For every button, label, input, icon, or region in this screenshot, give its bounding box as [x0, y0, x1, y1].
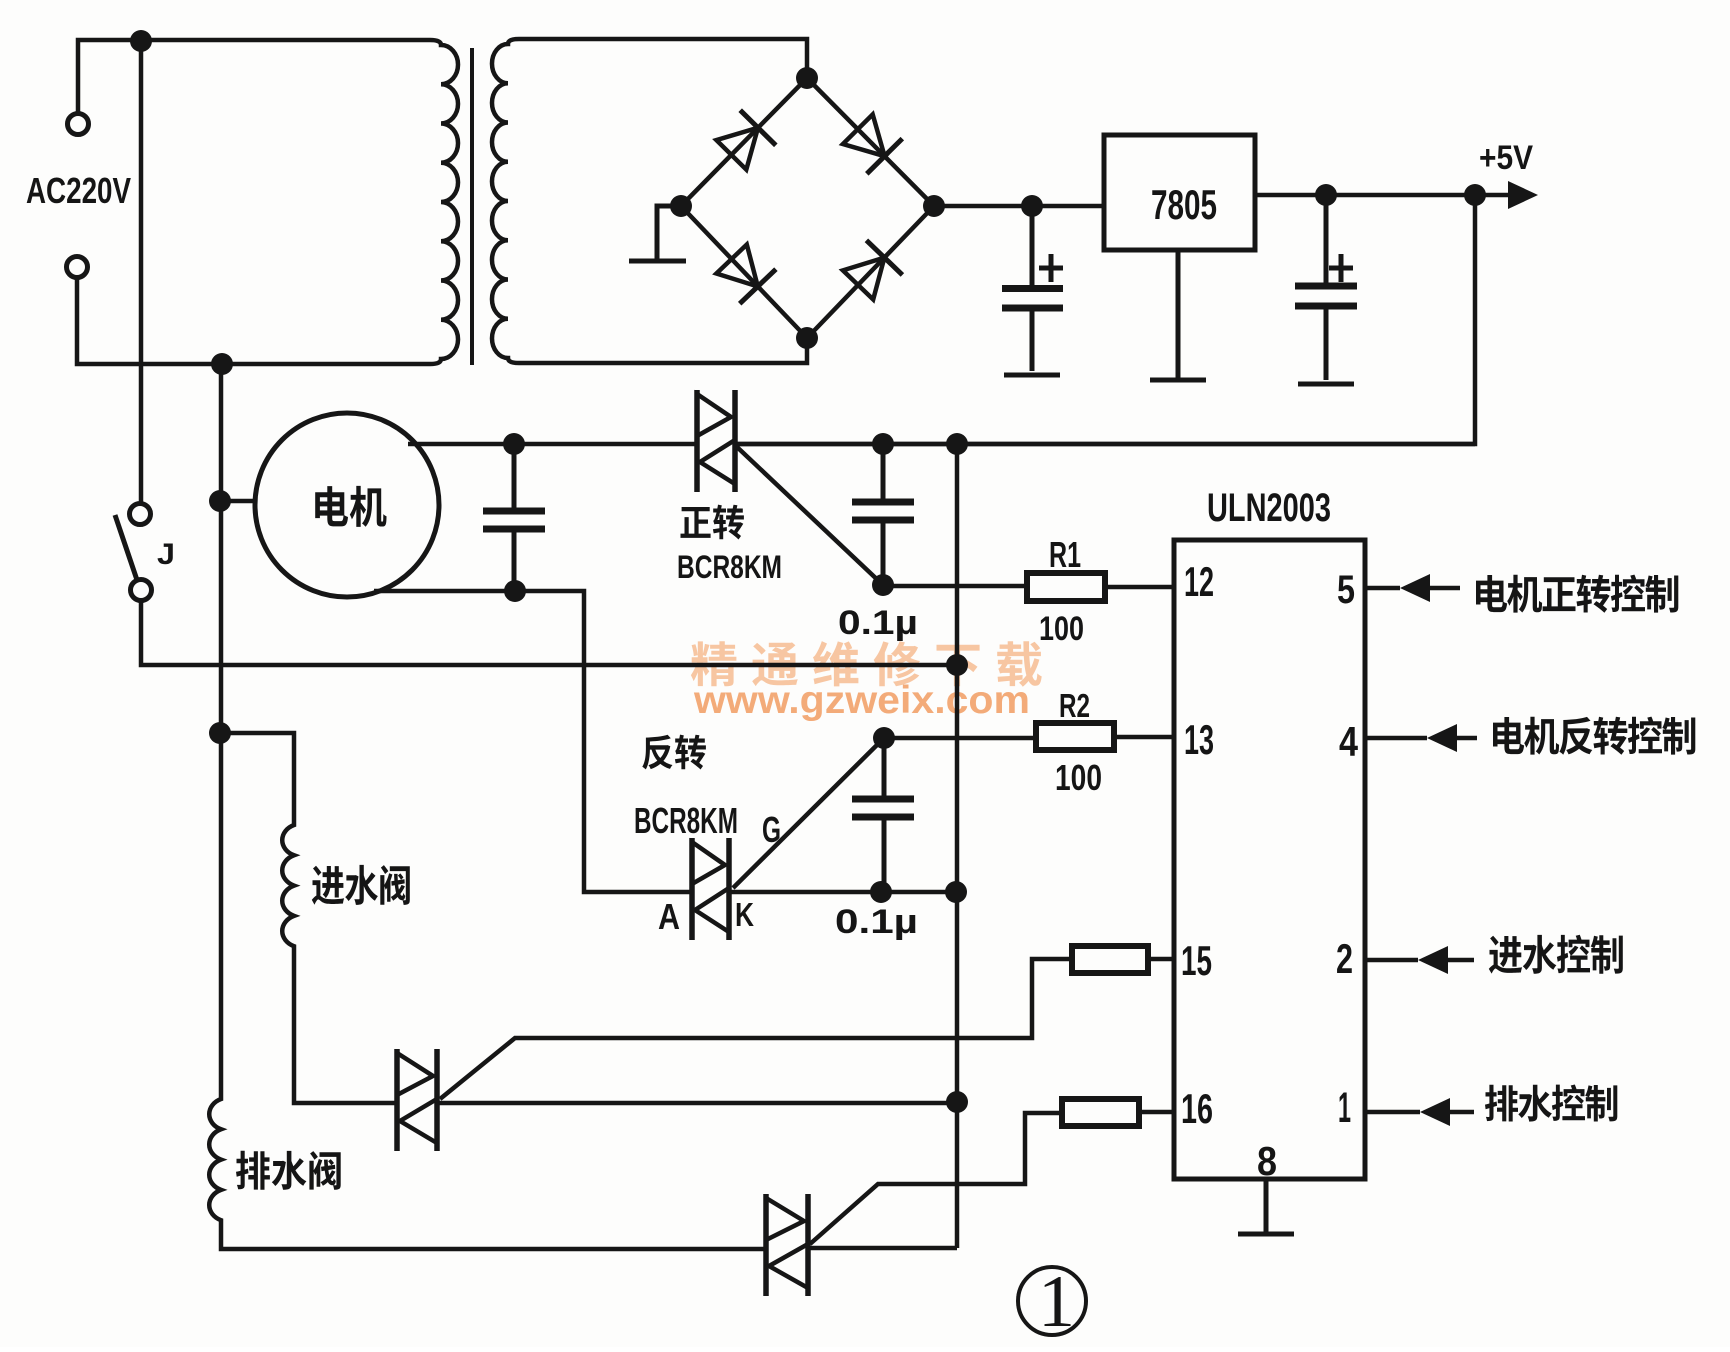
watermark line1 — [691, 641, 1042, 687]
wire branch AC to valves (vertical) — [209, 364, 766, 1249]
wire TR2 cathode to bus — [731, 890, 957, 895]
wire R1 to pin12 — [1105, 585, 1174, 590]
svg-text:0.1µ: 0.1µ — [838, 604, 918, 642]
gate TR3 to R3 — [440, 959, 1072, 1099]
diode D1 (top-left) — [681, 78, 807, 206]
node TR1 rail junction — [872, 433, 894, 455]
triac TR4 (drain) — [766, 1194, 808, 1296]
C1 plus sign — [1039, 254, 1063, 282]
node bottom-left junction — [211, 353, 233, 375]
inductor L1 进水阀 (inlet valve coil) — [220, 733, 397, 1103]
wire +5V rail down to triac rail — [735, 195, 1475, 444]
svg-text:12: 12 — [1184, 558, 1214, 605]
node rail-vertical junction — [946, 654, 968, 676]
node C3 top — [503, 433, 525, 455]
node bus TR3 junction — [946, 1091, 968, 1113]
switch J lower contact — [131, 580, 152, 601]
svg-text:ULN2003: ULN2003 — [1207, 486, 1331, 530]
svg-text:J: J — [157, 538, 175, 571]
svg-text:16: 16 — [1181, 1085, 1213, 1132]
pin5 wire + arrow 电机正转控制 — [1365, 586, 1400, 591]
regulator U2 7805 — [1104, 135, 1255, 250]
svg-text:5: 5 — [1337, 568, 1355, 612]
ground pin 8 — [1238, 1179, 1294, 1234]
svg-text:A: A — [658, 896, 680, 937]
triac TR3 (inlet) — [397, 1049, 437, 1151]
node C1 junction — [1021, 195, 1043, 217]
+5V arrow — [1508, 181, 1538, 209]
motor M (电机) — [255, 413, 439, 597]
node bridge top — [796, 67, 818, 89]
wire R2 to pin13 — [1114, 735, 1174, 740]
svg-text:7805: 7805 — [1151, 181, 1217, 228]
wire TR3 to bus — [437, 1101, 957, 1106]
resistor R2 — [1036, 723, 1114, 750]
switch J blade — [115, 515, 137, 580]
pin2 wire + arrow 进水控制 — [1365, 958, 1418, 963]
diode D4 (bottom-right) — [807, 206, 934, 338]
wire TR4 to bus — [808, 1246, 957, 1251]
node bus TR2 junction — [945, 881, 967, 903]
AC terminal upper — [68, 114, 89, 135]
node C3 bottom — [504, 580, 526, 602]
resistor R4 — [1062, 1099, 1139, 1126]
wire motor top to triac TR1 — [408, 442, 697, 447]
svg-text:4: 4 — [1339, 718, 1359, 765]
svg-text:0.1µ: 0.1µ — [835, 903, 918, 941]
svg-text:2: 2 — [1336, 935, 1353, 982]
svg-text:1: 1 — [1038, 1261, 1075, 1343]
capacitor C5 0.1u — [852, 738, 914, 892]
AC terminal lower — [67, 257, 88, 278]
svg-text:13: 13 — [1184, 716, 1214, 763]
switch J upper contact — [130, 504, 151, 525]
svg-text:15: 15 — [1181, 937, 1212, 984]
node C4 bottom / gate junction — [872, 574, 894, 596]
capacitor C4 0.1u — [852, 444, 914, 585]
wire 7805 output to +5V — [1255, 193, 1508, 198]
svg-text:R2: R2 — [1059, 687, 1090, 724]
diode D3 (bottom-left) — [681, 206, 807, 338]
node bridge left — [670, 195, 692, 217]
triac TR1 正转 BCR8KM — [697, 390, 735, 492]
resistor R1 — [1027, 573, 1105, 601]
wire bridge to 7805 input — [934, 204, 1104, 209]
wire gate to R2 — [884, 736, 1036, 741]
wire R3 to pin15 — [1148, 957, 1174, 962]
ground 7805 — [1150, 250, 1206, 380]
label 进水阀 — [312, 865, 410, 905]
node +5V branch junction — [1464, 184, 1486, 206]
node TR2 gate junction — [873, 727, 895, 749]
wire TR1 MT2 to +5V rail — [735, 442, 1475, 447]
IC U1 ULN2003 — [1174, 540, 1365, 1179]
node top junction — [130, 30, 152, 52]
svg-text:1: 1 — [1338, 1084, 1351, 1132]
svg-text:BCR8KM: BCR8KM — [677, 549, 782, 585]
C2 plus sign — [1329, 254, 1353, 282]
wire switch J to common rail — [141, 600, 957, 665]
svg-text:+5V: +5V — [1479, 139, 1533, 177]
label 正转 — [681, 505, 744, 540]
svg-text:www.gzweix.com: www.gzweix.com — [693, 679, 1030, 722]
pin1 wire + arrow 排水控制 — [1365, 1110, 1420, 1115]
wire motor bottom to triac TR2 anode — [374, 591, 692, 892]
svg-text:G: G — [762, 809, 781, 850]
wire main vertical bus — [955, 444, 960, 1248]
svg-text:AC220V: AC220V — [26, 170, 131, 211]
svg-text:R1: R1 — [1049, 534, 1081, 575]
wire junction to switch J — [139, 41, 144, 504]
svg-text:8: 8 — [1257, 1138, 1277, 1184]
svg-text:100: 100 — [1039, 610, 1084, 648]
wire motor left stub — [220, 499, 256, 504]
svg-text:K: K — [735, 896, 754, 933]
node bridge bottom — [796, 327, 818, 349]
node C2 junction — [1315, 184, 1337, 206]
capacitor C3 (motor) — [483, 444, 545, 591]
triac TR2 反转 BCR8KM — [692, 838, 729, 940]
node C5 bottom — [870, 881, 892, 903]
transformer secondary winding + wires to bridge — [492, 39, 807, 363]
node main vertical top junction — [946, 433, 968, 455]
ground at bridge left node — [629, 206, 686, 261]
inductor L2 排水阀 (drain valve coil) — [236, 1151, 341, 1190]
capacitor C2 (output filter) — [1295, 195, 1357, 380]
node inlet branch junction — [209, 722, 231, 744]
gate TR2 — [733, 738, 884, 888]
svg-text:100: 100 — [1055, 757, 1102, 798]
wire R4 to pin16 — [1139, 1110, 1174, 1115]
label 反转 — [642, 735, 706, 770]
wire top AC to transformer primary + primary winding T1 — [77, 40, 458, 364]
ground C1 — [1004, 373, 1060, 375]
figure number 1 in circle — [1018, 1267, 1086, 1335]
gate TR1 — [737, 447, 883, 585]
wire gate to R1 — [883, 584, 1027, 589]
resistor R3 — [1072, 946, 1148, 973]
transformer core — [470, 48, 474, 365]
ground C2 — [1298, 382, 1354, 384]
svg-text:BCR8KM: BCR8KM — [634, 800, 738, 841]
gate TR4 to R4 — [810, 1113, 1062, 1244]
capacitor C1 (input filter) — [1030, 206, 1035, 371]
node motor left junction — [209, 490, 231, 512]
diode D2 (top-right) — [807, 78, 934, 206]
pin4 wire + arrow 电机反转控制 — [1365, 736, 1427, 741]
node bridge right — [923, 195, 945, 217]
